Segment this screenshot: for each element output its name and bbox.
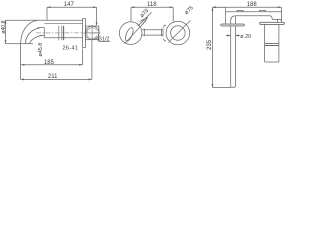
pipe right line upper: [235, 16, 237, 24]
valve body joint double line: [265, 44, 279, 46]
spout bend inner curve: [30, 36, 42, 44]
spout bar inner profile: [231, 16, 278, 24]
handle trim circle (front view): [119, 22, 142, 45]
valve body right edge: [278, 24, 280, 62]
svg-text:ø75: ø75: [184, 5, 195, 16]
lever tip flag: [140, 18, 148, 25]
spout tip bottom edge: [21, 43, 34, 45]
supply pipe left line: [230, 26, 232, 86]
dim 147 right extension line with arrow: [96, 7, 98, 25]
spout tip extension line: [20, 44, 22, 80]
dim 235 top extension: [213, 7, 226, 12]
svg-text:188: 188: [247, 2, 258, 8]
label ø70 leader: [138, 12, 152, 26]
spout bar right edge: [281, 7, 283, 22]
aerator tab left: [237, 10, 243, 11]
handle step: [278, 19, 282, 21]
svg-text:235: 235: [207, 39, 213, 50]
dim 188 dimension line: [213, 6, 282, 8]
connecting bar top line: [142, 29, 163, 31]
spout bottom edge (left view): [44, 37, 82, 39]
spout bend middle curve: [25, 28, 40, 44]
dim 235 dimension line: [212, 7, 214, 87]
spout bar top edge (side view): [226, 11, 282, 13]
aerator tab right: [260, 10, 266, 11]
svg-text:G1/2: G1/2: [98, 37, 110, 43]
mounting tab upper: [163, 25, 166, 27]
mounting tab lower: [163, 39, 166, 41]
vertical dim (left, spout drop) line: [5, 20, 7, 44]
spout joint vertical line: [43, 28, 45, 38]
G1/2 leader line: [96, 38, 110, 41]
spout inner circle: [171, 26, 186, 41]
dim 147 dimension line: [47, 6, 97, 8]
spout inner top line: [44, 23, 82, 25]
svg-text:ø70: ø70: [139, 8, 150, 19]
svg-text:211: 211: [48, 74, 58, 80]
supply pipe bottom: [231, 86, 236, 88]
spout escutcheon outer circle (front view): [166, 21, 190, 45]
G1/2 threaded inlet circle: [85, 26, 99, 40]
inlet inner thread arc: [87, 28, 97, 39]
dim ø20 arrows: [226, 35, 240, 37]
dim 118 dimension line: [131, 6, 173, 8]
wall plate (escutcheon, left view): [83, 19, 86, 48]
dim 211 extension (inlet center): [91, 41, 93, 79]
vertical dim extension at tip: [6, 43, 21, 45]
spout top edge (left view): [6, 19, 83, 21]
dim 118 right extension: [172, 7, 174, 21]
spout inner horizontal lines at bend: [38, 28, 45, 36]
lever line: [125, 20, 147, 43]
inlet thread hatch: [86, 28, 97, 39]
svg-text:ø45.8: ø45.8: [38, 43, 44, 57]
bar left cap: [143, 29, 145, 37]
label ø75 leader diagonal: [169, 20, 191, 42]
svg-text:ø40.8: ø40.8: [1, 20, 7, 33]
wall flange left (edge-on): [221, 24, 245, 26]
dim 185 dimension line: [21, 64, 83, 66]
lever knob oval: [124, 27, 135, 43]
connecting bar bottom line: [142, 34, 163, 36]
dim 185 extension (wall face): [82, 49, 84, 65]
svg-text:26-41: 26-41: [63, 46, 79, 52]
svg-text:147: 147: [64, 2, 75, 8]
inlet cross-hair vertical: [91, 25, 93, 41]
centerline (spout axis): [36, 32, 100, 34]
in-wall body (left view): [85, 26, 99, 40]
svg-text:118: 118: [147, 2, 157, 8]
dim 211 dimension line: [21, 78, 92, 80]
spout bend outer curve: [21, 20, 38, 44]
supply pipe right line: [235, 26, 237, 86]
dim 235 bottom extension: [213, 87, 232, 89]
wall plate right (edge-on): [260, 22, 285, 24]
inlet cross-hair horizontal: [84, 32, 100, 34]
valve body left edge: [264, 24, 266, 62]
svg-text:185: 185: [44, 60, 55, 66]
spout bar left edge: [225, 12, 227, 24]
adjustment tick marks 26-41: [59, 26, 62, 40]
svg-text:ø 20: ø 20: [240, 34, 251, 40]
dim 147 left extension line: [46, 7, 48, 20]
bar right cap: [161, 29, 163, 37]
valve body bottom: [265, 61, 279, 63]
dim 118 left extension: [130, 7, 132, 21]
